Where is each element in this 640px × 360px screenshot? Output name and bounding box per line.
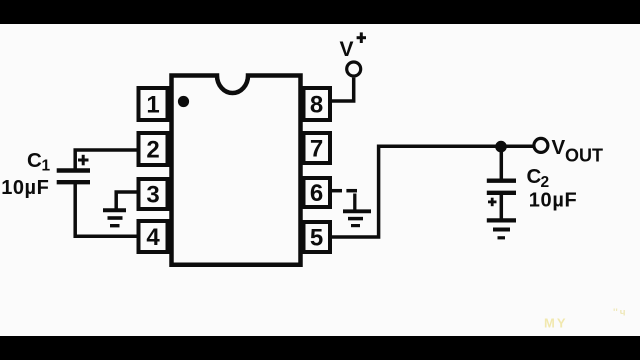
junction node dot [495,141,507,153]
pin 7 [304,133,331,163]
pin 1 marker dot [178,96,189,107]
label V+ [340,32,367,61]
svg-text:V: V [552,136,566,159]
label C1 value 10uF [1,177,49,199]
label C2 [527,165,550,191]
svg-text:2: 2 [146,137,159,164]
wire pin8 to V+ terminal [331,78,354,101]
wire pin6 dash 2 [346,189,357,193]
svg-text:ʹʹ ч: ʹʹ ч [613,308,626,319]
svg-text:1: 1 [42,158,51,175]
svg-text:3: 3 [146,182,159,209]
wire C2 to ground [500,193,504,219]
pin 6 [304,178,331,207]
label C1 [27,149,51,175]
svg-text:V: V [340,38,354,61]
pin 5 [304,222,331,252]
pin 2 [139,133,168,165]
IC U1 body with notch [172,76,301,265]
pin 8 [304,88,331,120]
wire pin3 to ground [116,192,138,209]
wire C1 bottom to pin4 [75,183,138,237]
svg-text:6: 6 [310,180,323,207]
ground pin3 [103,210,126,225]
svg-text:5: 5 [310,225,323,252]
ground pin6 stem [353,194,356,210]
svg-text:10µF: 10µF [1,177,49,199]
label VOUT [552,136,604,166]
svg-text:7: 7 [310,136,323,163]
svg-text:4: 4 [146,224,160,251]
wire pin5 to output node [331,146,534,237]
capacitor C2 [487,181,516,207]
svg-text:1: 1 [146,92,159,119]
top letterbox bar [0,0,640,24]
ground pin6 [343,211,371,225]
capacitor C1 [57,155,90,182]
ground C2 [487,220,516,237]
svg-text:OUT: OUT [565,145,603,165]
svg-text:2: 2 [541,174,550,191]
capacitor C2 lead from node [500,147,504,179]
svg-text:10µF: 10µF [529,190,578,212]
label C2 value 10uF [529,190,578,212]
V+ terminal circle [347,62,361,76]
VOUT terminal circle [534,138,548,152]
pin 3 [139,179,168,209]
pin 1 [139,88,168,120]
pin 4 [139,221,168,252]
wire pin6 dash 1 [332,189,343,193]
svg-text:C: C [527,165,542,188]
watermark [544,308,626,331]
bottom letterbox bar [0,336,640,360]
wire pin2 to C1 top [75,150,138,170]
svg-text:C: C [27,149,42,172]
svg-text:MY: MY [544,316,568,331]
svg-text:8: 8 [310,92,323,119]
